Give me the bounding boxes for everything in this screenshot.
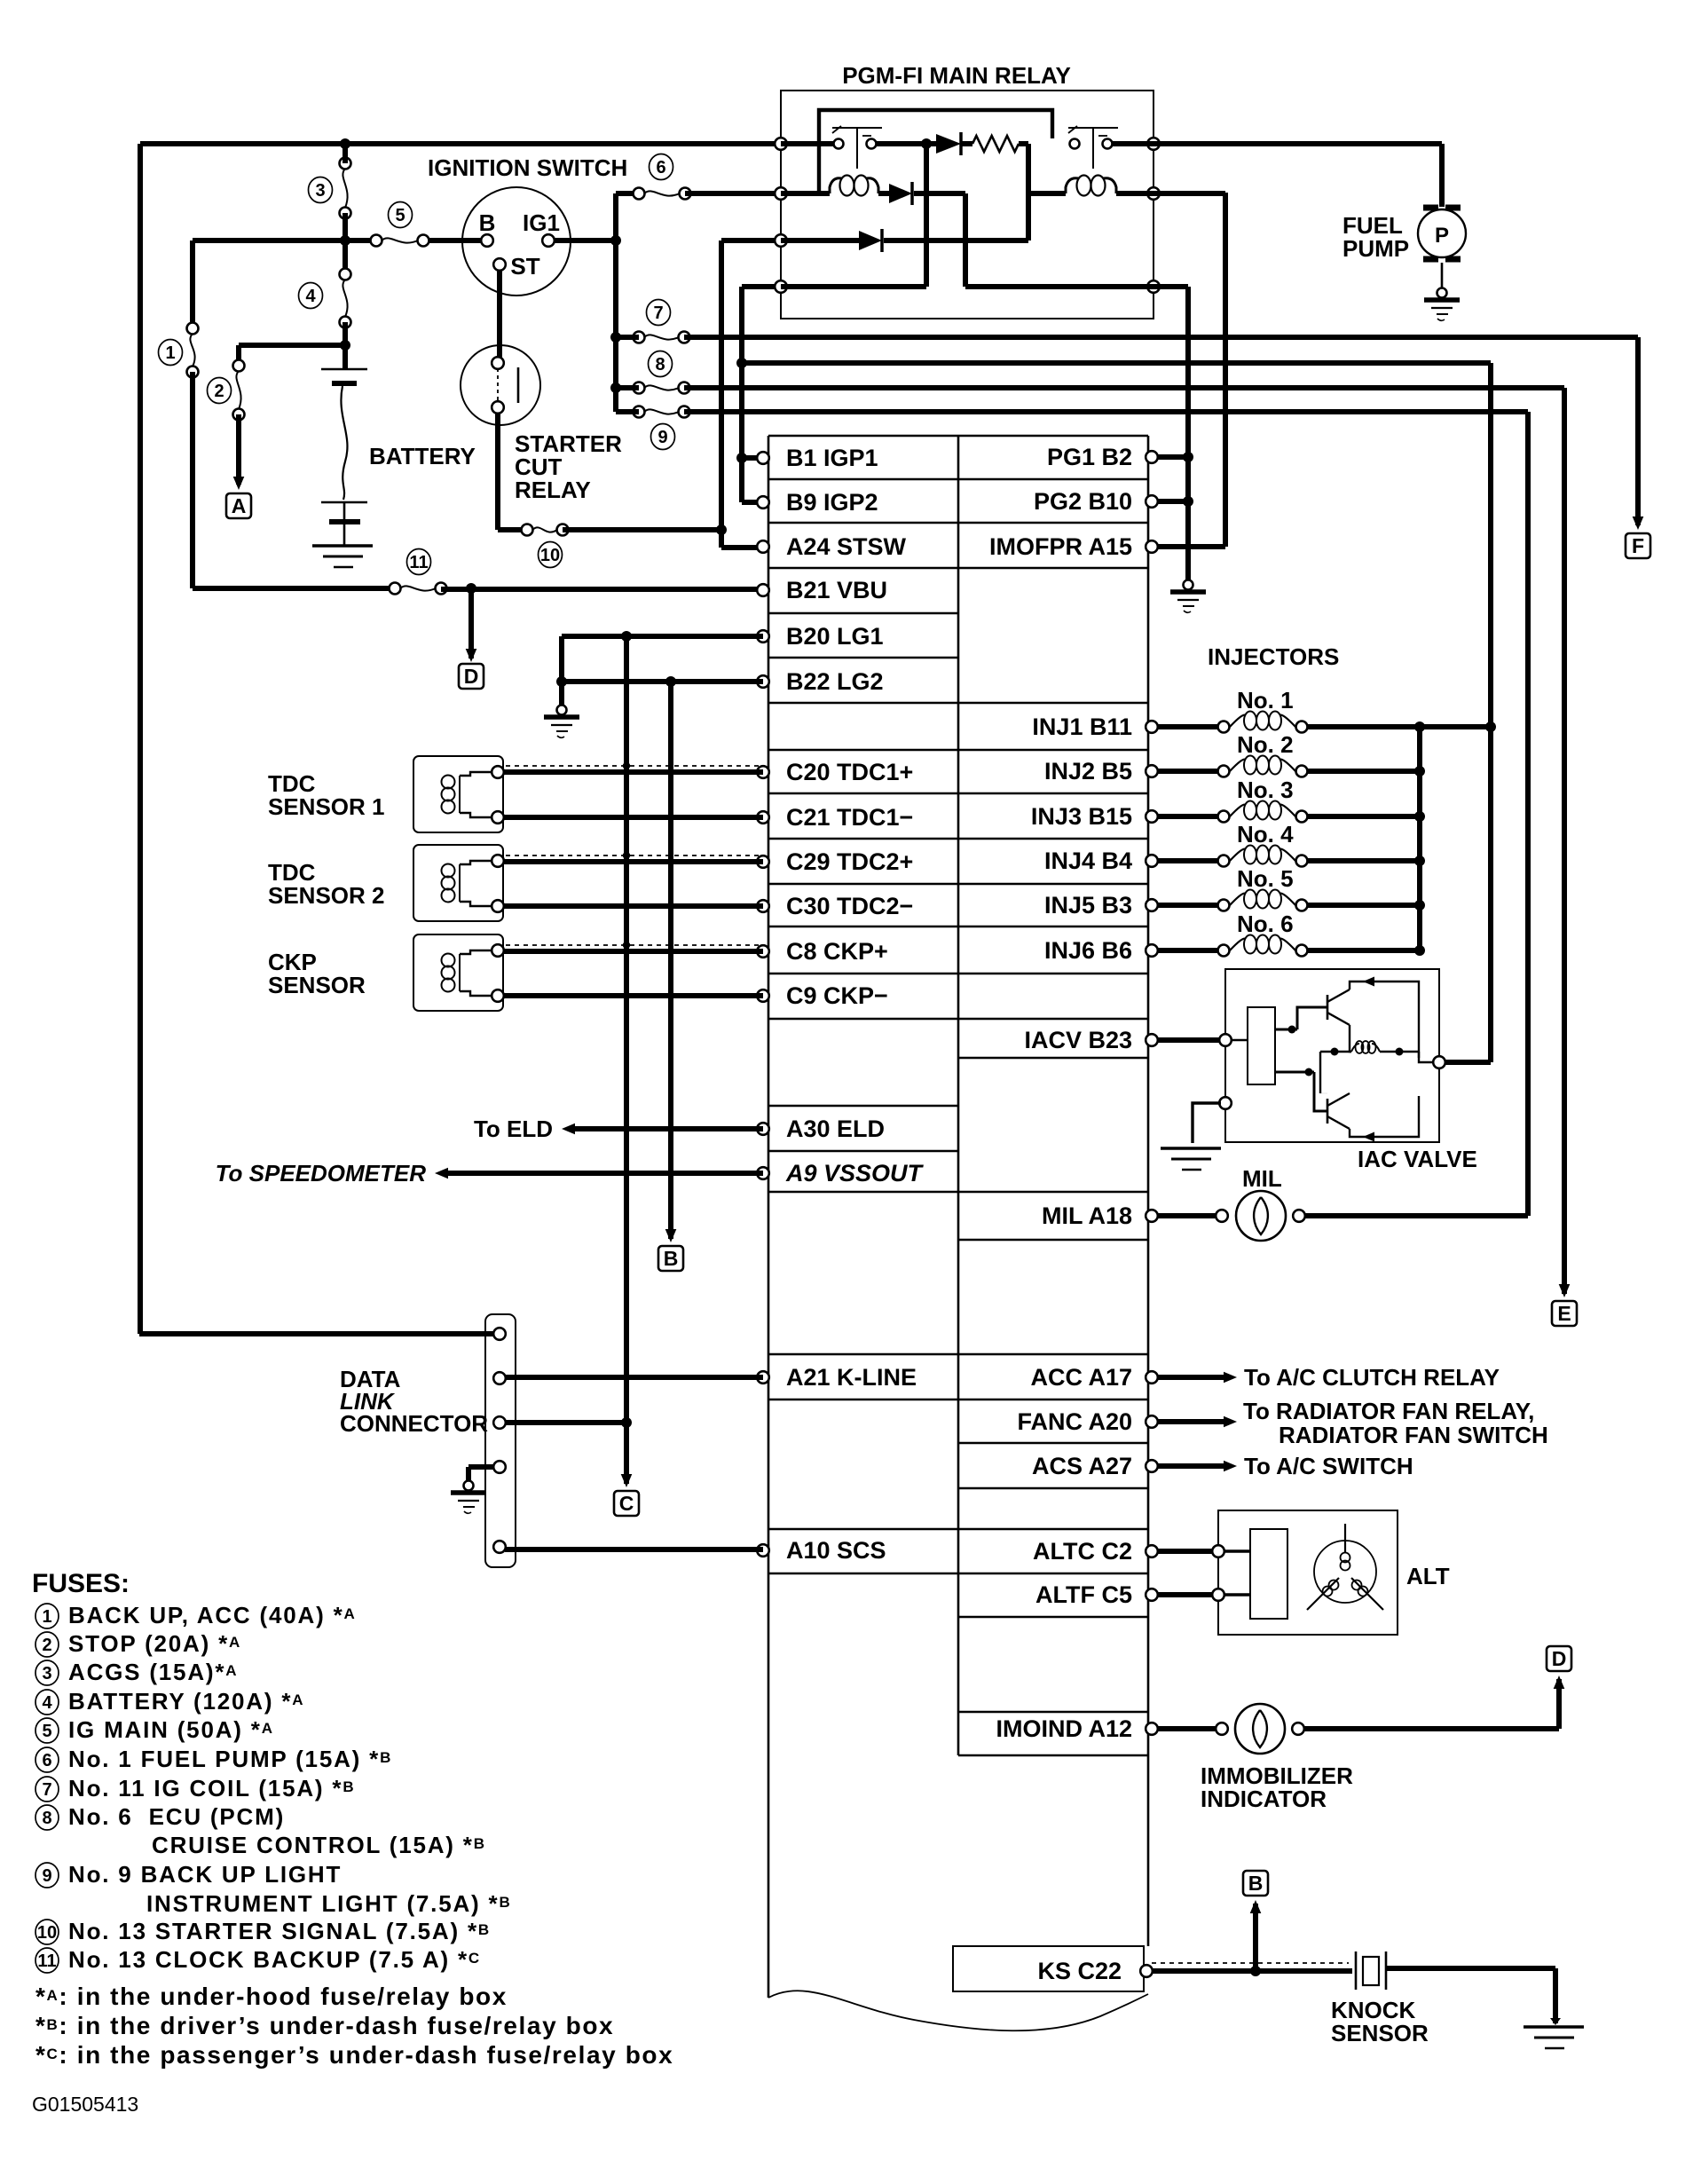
wire IMOIND ecu — [1157, 1726, 1222, 1731]
svg-text:INJ3 B15: INJ3 B15 — [1031, 803, 1132, 830]
svg-text:9: 9 — [42, 1866, 51, 1886]
ECU row line y1526 — [768, 1353, 1148, 1356]
node B1 tap — [736, 453, 747, 463]
wire relay feed right — [742, 360, 1491, 366]
arrow to F — [1633, 516, 1644, 530]
relay inner top loop — [819, 110, 1052, 193]
fuse list item 1 — [35, 1604, 59, 1628]
starter cut relay body — [461, 345, 540, 425]
wire IAC drv out2 — [1275, 1071, 1314, 1074]
svg-text:IGNITION SWITCH: IGNITION SWITCH — [428, 154, 627, 181]
ECU row line right y1978 — [958, 1754, 1148, 1757]
node fuse8 tap — [610, 382, 621, 393]
IMOIND lamp pins — [1216, 1723, 1228, 1735]
arrow to B bottom — [1250, 1900, 1262, 1913]
ECU row line y945 — [768, 838, 1148, 840]
injector No.2 — [1218, 766, 1230, 777]
node KS B tap — [1250, 1966, 1261, 1976]
node battery junction — [340, 340, 350, 351]
node collector 869 — [1414, 766, 1425, 777]
wire B1 IGP1 — [742, 455, 763, 461]
svg-text:To A/C CLUTCH RELAY: To A/C CLUTCH RELAY — [1244, 1364, 1500, 1391]
node shield TDC2 drain — [623, 852, 630, 859]
relay coil1 — [830, 178, 842, 193]
node LG2 junction — [556, 676, 567, 687]
injector No.6 — [1218, 945, 1230, 957]
ECU row line left y741 — [768, 657, 958, 659]
ECU pin PG1 B2 — [1146, 451, 1158, 463]
fuel pump brushes — [1423, 205, 1461, 211]
wire to D box — [468, 588, 474, 658]
svg-text:No. 6 ECU (PCM): No. 6 ECU (PCM) — [68, 1803, 285, 1830]
svg-text:BATTERY: BATTERY — [369, 443, 476, 469]
DLC pin 1 — [493, 1328, 506, 1340]
fuse 9 BACKUP LIGHT — [634, 406, 645, 418]
IAC valve box — [1225, 969, 1439, 1142]
wire INJ5 ecu — [1157, 903, 1224, 908]
wire left branch down — [190, 240, 195, 328]
IAC driver block — [1248, 1007, 1275, 1084]
wire relay to fuel pump — [1154, 141, 1442, 146]
fuse list item 10 — [35, 1920, 59, 1944]
wire relay rowD right — [965, 284, 1154, 289]
svg-text:A9 VSSOUT: A9 VSSOUT — [785, 1160, 925, 1187]
wire INJ6 collector — [1307, 948, 1420, 953]
DLC pin 4 — [493, 1461, 506, 1473]
wire DLC ground lead — [468, 1464, 494, 1470]
svg-text:PG1 B2: PG1 B2 — [1047, 444, 1132, 470]
wire INJ4 ecu — [1157, 858, 1224, 863]
CKP sensor — [413, 934, 503, 1011]
box F — [1626, 533, 1650, 558]
ECU pin C8 CKP+ — [757, 945, 769, 958]
svg-text:SENSOR 1: SENSOR 1 — [268, 793, 385, 820]
wire relay rowA riser — [924, 144, 929, 287]
node collector 970 — [1414, 855, 1425, 866]
ECU pin KS C22 — [1140, 1965, 1153, 1977]
svg-text:IACV B23: IACV B23 — [1024, 1027, 1132, 1053]
ECU row line y1343 — [768, 1191, 1148, 1194]
svg-text:INJ4 B4: INJ4 B4 — [1044, 848, 1132, 874]
wire CKP- signal — [503, 993, 763, 998]
fuse 3 ACGS — [340, 158, 351, 170]
fuse 7 label — [647, 300, 671, 326]
node STSW junction — [716, 524, 727, 535]
node injector feed — [1485, 721, 1496, 732]
svg-text:6: 6 — [656, 158, 665, 177]
starter relay contact bar — [517, 367, 520, 403]
arrow to C — [621, 1474, 633, 1487]
arrow To ELD — [562, 1124, 575, 1135]
svg-text:G01505413: G01505413 — [32, 2093, 138, 2116]
ECU pin B9 IGP2 — [757, 496, 769, 509]
svg-text:1: 1 — [42, 1607, 51, 1627]
KS C22 box — [953, 1946, 1144, 1991]
svg-text:7: 7 — [653, 304, 663, 323]
wire B22 LG2 — [562, 679, 763, 684]
ground LG — [557, 706, 567, 715]
wire INJ3 ecu — [1157, 814, 1224, 819]
svg-text:ST: ST — [510, 253, 539, 280]
ECU pin B1 IGP1 — [757, 452, 769, 464]
svg-text:IG MAIN (50A) *A: IG MAIN (50A) *A — [68, 1716, 274, 1743]
svg-text:INJ5 B3: INJ5 B3 — [1044, 892, 1132, 919]
node fuse7 tap — [610, 332, 621, 343]
svg-text:*B: in the driver’s under-dash: *B: in the driver’s under-dash fuse/rela… — [35, 2012, 614, 2039]
svg-text:11: 11 — [37, 1951, 56, 1971]
svg-text:SENSOR: SENSOR — [1331, 2020, 1429, 2046]
MIL lamp pins — [1216, 1210, 1228, 1222]
ECU row line right y1626 — [958, 1442, 1148, 1445]
ECU row line 792 — [768, 702, 1148, 705]
wire relay rowA mid — [877, 141, 936, 146]
immobilizer indicator lamp — [1235, 1704, 1285, 1754]
svg-text:IAC VALVE: IAC VALVE — [1358, 1146, 1477, 1172]
wire B9 IGP2 — [742, 500, 763, 505]
ECU row line right y1397 — [958, 1239, 1148, 1242]
ECU pin C29 TDC2+ — [757, 855, 769, 868]
svg-text:STOP (20A) *A: STOP (20A) *A — [68, 1630, 241, 1657]
resistor R1 — [972, 136, 1019, 152]
ECU pin A9 VSSOUT — [757, 1167, 769, 1179]
wire PG1 — [1152, 454, 1188, 460]
svg-text:To SPEEDOMETER: To SPEEDOMETER — [216, 1160, 427, 1187]
wire rowD drop — [739, 287, 744, 502]
wire d2 out — [914, 191, 965, 196]
box D right — [1547, 1646, 1571, 1671]
fuse list item 6 — [35, 1747, 59, 1772]
ECU row line y894 — [768, 792, 1148, 795]
wire LG down — [559, 636, 564, 682]
fuse list item 9 — [35, 1863, 59, 1888]
wire fuse7 out to F — [684, 335, 1638, 340]
ECU pin A10 SCS — [757, 1544, 769, 1557]
ECU row line y540 — [768, 478, 1148, 481]
svg-text:B20 LG1: B20 LG1 — [786, 623, 884, 650]
ECU row line right y1822 — [958, 1616, 1148, 1619]
svg-text:A24 STSW: A24 STSW — [786, 533, 907, 560]
wire pump to gnd — [1441, 263, 1444, 289]
relay contact1 — [834, 139, 844, 149]
svg-text:BATTERY (120A) *A: BATTERY (120A) *A — [68, 1688, 304, 1715]
wire fuse1 down — [190, 372, 195, 588]
wire battery branch — [239, 343, 345, 348]
ECU torn bottom edge — [768, 1991, 1148, 2030]
box D — [459, 664, 484, 689]
knock sensor element — [1355, 1951, 1358, 1990]
injector collector bus — [1417, 727, 1422, 950]
ECU pin B21 VBU — [757, 584, 769, 596]
wire relay rowD stub — [742, 284, 781, 289]
wire fuse10 out — [563, 527, 721, 532]
wire battery stem — [343, 345, 348, 369]
svg-text:INJ1 B11: INJ1 B11 — [1032, 714, 1132, 740]
svg-text:INSTRUMENT LIGHT (7.5A) *B: INSTRUMENT LIGHT (7.5A) *B — [146, 1890, 512, 1917]
wire IAC mid left2 — [1320, 1051, 1351, 1053]
wire IAC drv out1 — [1275, 1029, 1297, 1031]
node IG1 junction — [610, 235, 621, 246]
ECU row line left y1297 — [768, 1150, 958, 1153]
ECU row line y1723 — [768, 1528, 1148, 1531]
wire IAC right link — [1419, 1052, 1434, 1062]
svg-text:B: B — [664, 1247, 679, 1270]
svg-text:2: 2 — [214, 382, 224, 401]
ECU row line y1097 — [768, 973, 1148, 975]
svg-text:RADIATOR FAN SWITCH: RADIATOR FAN SWITCH — [1279, 1422, 1548, 1448]
svg-text:A: A — [232, 494, 247, 517]
wire B feed — [193, 238, 376, 243]
svg-text:RELAY: RELAY — [515, 477, 591, 503]
wire fuse6 to relay — [685, 191, 781, 196]
ALT stator circle — [1314, 1541, 1376, 1603]
ECU pin INJ3 B15 — [1146, 810, 1158, 823]
injector No.1 — [1218, 721, 1230, 733]
wire knock to gnd — [1386, 1966, 1555, 1971]
svg-text:FUSES:: FUSES: — [32, 1569, 130, 1598]
ECU pin INJ6 B6 — [1146, 944, 1158, 957]
IAC solenoid coil — [1351, 1044, 1359, 1052]
data link connector body — [485, 1314, 516, 1567]
svg-text:B: B — [1248, 1872, 1264, 1895]
ECU row line y1577 — [768, 1399, 1148, 1401]
svg-text:P: P — [1435, 224, 1449, 248]
MIL lamp — [1236, 1191, 1286, 1241]
DLC pin 5 — [493, 1541, 506, 1553]
svg-text:BACK UP, ACC (40A) *A: BACK UP, ACC (40A) *A — [68, 1602, 357, 1628]
wire feed to IACV — [1445, 1060, 1491, 1065]
ground fuel pump — [1437, 288, 1447, 298]
svg-text:ACS A27: ACS A27 — [1032, 1453, 1132, 1479]
svg-text:No. 6: No. 6 — [1237, 911, 1294, 937]
ignition switch body — [462, 187, 571, 296]
relay terminal L2 — [775, 187, 787, 200]
TDC sensor 1 — [413, 756, 503, 832]
wire relay rowD left — [781, 284, 926, 289]
wire IG1 riser — [613, 193, 618, 412]
ECU row line y996 — [768, 883, 1148, 886]
ground knock sensor — [1550, 2018, 1561, 2025]
svg-text:ACC A17: ACC A17 — [1030, 1364, 1132, 1391]
svg-text:To ELD: To ELD — [474, 1116, 553, 1142]
arrow to B — [665, 1229, 677, 1242]
battery cell1 plate- — [332, 381, 357, 386]
wire E drop — [1562, 388, 1567, 1294]
wire relay feed drop — [1488, 363, 1493, 1062]
ECU pin A21 K-LINE — [757, 1371, 769, 1384]
ECU pin FANC A20 — [1146, 1415, 1158, 1428]
svg-text:*A: in the under-hood fuse/rel: *A: in the under-hood fuse/relay box — [35, 1983, 508, 2010]
battery ground stem — [343, 524, 346, 545]
svg-text:C30 TDC2−: C30 TDC2− — [786, 893, 913, 919]
fuse 6 label — [650, 154, 673, 180]
pgm-fi relay box — [781, 91, 1154, 319]
node collector 1071 — [1414, 945, 1425, 956]
fuse list item 5 — [35, 1718, 59, 1743]
relay terminal R3 — [1147, 280, 1160, 293]
shield TDC1 dashed — [506, 765, 761, 767]
wire IAC q1 link — [1297, 1007, 1327, 1029]
fuse 11 CLOCK BACKUP — [390, 583, 401, 595]
node PG1 tap — [1183, 452, 1193, 462]
arrow To SPEEDOMETER — [435, 1168, 448, 1179]
battery cell2 plate- — [329, 519, 360, 524]
ground PG — [1184, 580, 1193, 590]
svg-text:PG2 B10: PG2 B10 — [1034, 488, 1132, 515]
svg-text:8: 8 — [42, 1809, 51, 1828]
wire LG ground stem — [559, 682, 564, 706]
arrow to D right — [1554, 1675, 1565, 1689]
node rowD feed tap — [736, 358, 747, 368]
wire F drop — [1635, 337, 1641, 525]
battery cell2 plate+ — [321, 501, 367, 504]
ALT terminal C2 — [1212, 1545, 1224, 1557]
svg-text:CRUISE CONTROL (15A) *B: CRUISE CONTROL (15A) *B — [152, 1832, 486, 1858]
svg-text:IG1: IG1 — [523, 209, 560, 236]
svg-text:D: D — [464, 665, 479, 688]
fuse 3 label — [309, 177, 333, 203]
svg-text:E: E — [1557, 1302, 1571, 1325]
svg-text:F: F — [1632, 534, 1644, 557]
wire DLC K-line — [505, 1375, 763, 1380]
svg-text:10: 10 — [37, 1923, 57, 1943]
svg-text:ALTC C2: ALTC C2 — [1033, 1538, 1132, 1565]
ECU pin ACC A17 — [1146, 1371, 1158, 1384]
ALT stator winding right — [1351, 1578, 1383, 1610]
svg-text:1: 1 — [165, 343, 175, 363]
wire relay rowC stub — [721, 238, 781, 243]
svg-text:C20 TDC1+: C20 TDC1+ — [786, 759, 913, 785]
wire B-line — [668, 682, 673, 1239]
svg-text:A30 ELD: A30 ELD — [786, 1116, 885, 1142]
ECU row line right y1929 — [958, 1711, 1148, 1714]
wire ALT leads — [1224, 1549, 1250, 1552]
wire MIL to riser — [1304, 1213, 1528, 1218]
injector No.4 — [1218, 855, 1230, 867]
wire d1-res — [961, 141, 972, 146]
svg-text:INJ2 B5: INJ2 B5 — [1044, 758, 1132, 785]
node collector 1020 — [1414, 900, 1425, 911]
ECU pin IMOIND A12 — [1146, 1723, 1158, 1735]
svg-text:B22 LG2: B22 LG2 — [786, 668, 884, 695]
fuse 11 label — [407, 549, 431, 575]
svg-text:To A/C SWITCH: To A/C SWITCH — [1244, 1453, 1413, 1479]
fuse 1 label — [159, 340, 183, 366]
wire fuse9 out to MIL — [684, 409, 1528, 414]
wire IMOIND to D — [1303, 1726, 1559, 1731]
wire fuse8 out to E — [684, 385, 1564, 390]
wire fuse8 stub — [616, 385, 639, 390]
diode D2 — [889, 184, 912, 203]
svg-text:INJ6 B6: INJ6 B6 — [1044, 937, 1132, 964]
svg-text:D: D — [1552, 1647, 1567, 1670]
svg-text:8: 8 — [655, 355, 665, 375]
svg-text:ALT: ALT — [1406, 1563, 1450, 1589]
IAC terminal gnd — [1219, 1097, 1232, 1109]
svg-text:7: 7 — [42, 1780, 51, 1800]
ECU pin INJ1 B11 — [1146, 721, 1158, 733]
wire PG2 — [1152, 499, 1188, 504]
wire coil1 out — [878, 191, 889, 196]
relay terminal R2 — [1147, 187, 1160, 200]
relay coil2 — [1066, 178, 1079, 193]
wire res out — [1019, 141, 1028, 146]
svg-text:SENSOR: SENSOR — [268, 972, 366, 998]
ECU row line y640 — [768, 567, 1148, 570]
svg-text:6: 6 — [42, 1751, 51, 1770]
shield TDC2 dashed — [506, 855, 761, 856]
relay terminal L3 — [775, 234, 787, 247]
svg-text:9: 9 — [657, 428, 667, 447]
fuse 2 label — [208, 378, 232, 404]
fuse 2 STOP — [233, 360, 245, 372]
svg-text:No. 4: No. 4 — [1237, 821, 1294, 848]
node shield A30 tap — [667, 1125, 674, 1132]
shield KS dashed — [1152, 1962, 1349, 1964]
node shield CKP drain — [623, 942, 630, 949]
wire IAC bottom rail — [1350, 1096, 1419, 1137]
svg-text:4: 4 — [305, 287, 316, 306]
wire TDC1+ signal — [503, 769, 763, 775]
arrow to A — [233, 477, 245, 490]
wire TDC2- signal — [503, 903, 763, 909]
fuse 8 ECU — [634, 382, 645, 394]
wire TDC2+ signal — [503, 859, 763, 864]
svg-text:CONNECTOR: CONNECTOR — [340, 1410, 488, 1437]
ECU pin B20 LG1 — [757, 630, 769, 643]
ground IACV — [1161, 1147, 1221, 1149]
svg-text:MIL A18: MIL A18 — [1042, 1202, 1132, 1229]
ECU pin A30 ELD — [757, 1123, 769, 1135]
svg-text:B1 IGP1: B1 IGP1 — [786, 445, 878, 471]
battery long wire squiggle — [341, 386, 347, 500]
terminal B — [481, 234, 493, 247]
wire coil2 out — [1116, 191, 1154, 196]
ECU pin PG2 B10 — [1146, 495, 1158, 508]
fuse 5 label — [389, 202, 413, 228]
node INJ1 collector — [1414, 721, 1425, 732]
svg-text:C21 TDC1−: C21 TDC1− — [786, 804, 913, 831]
wire IMOFPR — [1152, 544, 1225, 549]
ECU row line y845 — [768, 749, 1148, 752]
node VBU junction — [466, 583, 476, 594]
svg-text:C: C — [619, 1492, 634, 1515]
fuse 10 label — [539, 542, 563, 568]
svg-text:PGM-FI MAIN RELAY: PGM-FI MAIN RELAY — [842, 62, 1071, 89]
svg-text:B9 IGP2: B9 IGP2 — [786, 489, 878, 516]
injector No.3 — [1218, 811, 1230, 823]
injector No.5 — [1218, 900, 1230, 911]
svg-text:No. 1: No. 1 — [1237, 687, 1294, 714]
svg-text:B: B — [479, 209, 496, 236]
node collector 920 — [1414, 811, 1425, 822]
wire ACS arrow — [1157, 1463, 1226, 1469]
starter relay dashed contact — [497, 368, 499, 402]
fuse 10 STARTER SIGNAL — [522, 524, 533, 536]
wire ACC arrow — [1157, 1375, 1226, 1380]
node DLC pin3 junction — [621, 1417, 632, 1428]
ECU connector right edge — [1147, 436, 1150, 1946]
ECU pin C30 TDC2− — [757, 900, 769, 912]
ECU pin INJ4 B4 — [1146, 855, 1158, 867]
svg-text:C8 CKP+: C8 CKP+ — [786, 938, 888, 965]
wire fuse2 down — [236, 414, 241, 485]
wire IAC gnd lead — [1193, 1103, 1221, 1143]
box A — [226, 493, 251, 518]
battery cell2 stem — [343, 502, 346, 522]
svg-text:To RADIATOR FAN RELAY,: To RADIATOR FAN RELAY, — [1243, 1398, 1534, 1424]
svg-text:*C: in the passenger’s under-d: *C: in the passenger’s under-dash fuse/r… — [35, 2041, 673, 2069]
ALT stator winding top — [1344, 1524, 1346, 1553]
